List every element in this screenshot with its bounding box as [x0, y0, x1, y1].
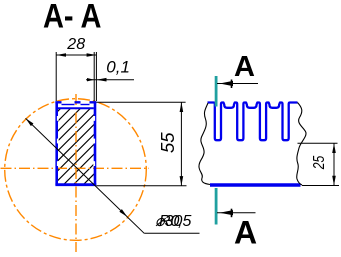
dim 28 line — [56, 54, 96, 56]
svg-text:R0: R0 — [159, 213, 180, 230]
section arrow line top — [217, 83, 258, 85]
section mark teal top — [215, 76, 218, 107]
diameter arrow lower-right — [119, 209, 127, 217]
svg-text:A- A: A- A — [43, 0, 102, 36]
section arrow head bottom — [220, 210, 234, 215]
svg-text:A: A — [234, 51, 255, 83]
dim 55 arrow down — [180, 176, 184, 186]
centerline vertical — [75, 94, 77, 252]
circle (orange dash-dot) — [5, 99, 147, 241]
top bar — [55, 101, 96, 103]
inner line under groove — [58, 107, 94, 109]
section arrow line bottom — [217, 212, 256, 214]
dim 0,1 extension line B — [95, 52, 97, 101]
dim 28 extension line left — [55, 52, 57, 101]
svg-text:0,1: 0,1 — [106, 57, 130, 76]
diameter dimension line — [26, 118, 145, 233]
dim 55 bottom extension — [96, 185, 186, 187]
top notch 2 — [81, 101, 90, 104]
svg-text:28: 28 — [66, 36, 85, 53]
dim 25 top extension — [298, 142, 338, 144]
section rect outer border (blue) — [55, 102, 96, 186]
section arrow head top — [220, 81, 234, 86]
right bar notches — [93, 116, 95, 121]
dim 55 top extension — [96, 101, 185, 103]
dim 28 arrow left — [56, 53, 66, 57]
dim 25 arrow up — [332, 143, 336, 153]
svg-text:25: 25 — [311, 155, 328, 170]
comb outline (blue) — [208, 103, 298, 141]
dim 55 arrow up — [180, 102, 184, 112]
dim 25 bottom extension — [302, 185, 339, 187]
left break (wavy) edge — [199, 103, 210, 185]
comb bottom thick bar — [210, 183, 301, 186]
centerline horizontal — [1, 167, 150, 169]
dim 0,1 line — [86, 79, 134, 81]
svg-text:,5: ,5 — [178, 213, 191, 230]
svg-text:55: 55 — [157, 132, 178, 153]
dim 28 arrow right — [87, 53, 97, 57]
right bar — [94, 102, 97, 186]
dim 55 line — [180, 102, 182, 186]
dim 0,1 arrow left (points right) — [87, 78, 94, 81]
leader shelf — [144, 232, 199, 234]
diameter arrow upper-left — [26, 118, 34, 126]
dim 25 line — [333, 143, 335, 185]
left bar — [55, 102, 58, 186]
right break (wavy) edge — [297, 103, 306, 186]
top notch 1 — [62, 101, 75, 104]
section mark teal bottom — [215, 188, 218, 225]
svg-text:A: A — [234, 215, 257, 251]
dim 25 arrow down — [332, 176, 336, 186]
left bar notches — [57, 116, 59, 121]
top profile with slots and tooth dips — [208, 103, 298, 141]
bottom bar — [55, 183, 96, 186]
dim 0,1 arrow right (points left) — [96, 78, 106, 82]
dim 0,1 extension line A — [93, 52, 95, 101]
